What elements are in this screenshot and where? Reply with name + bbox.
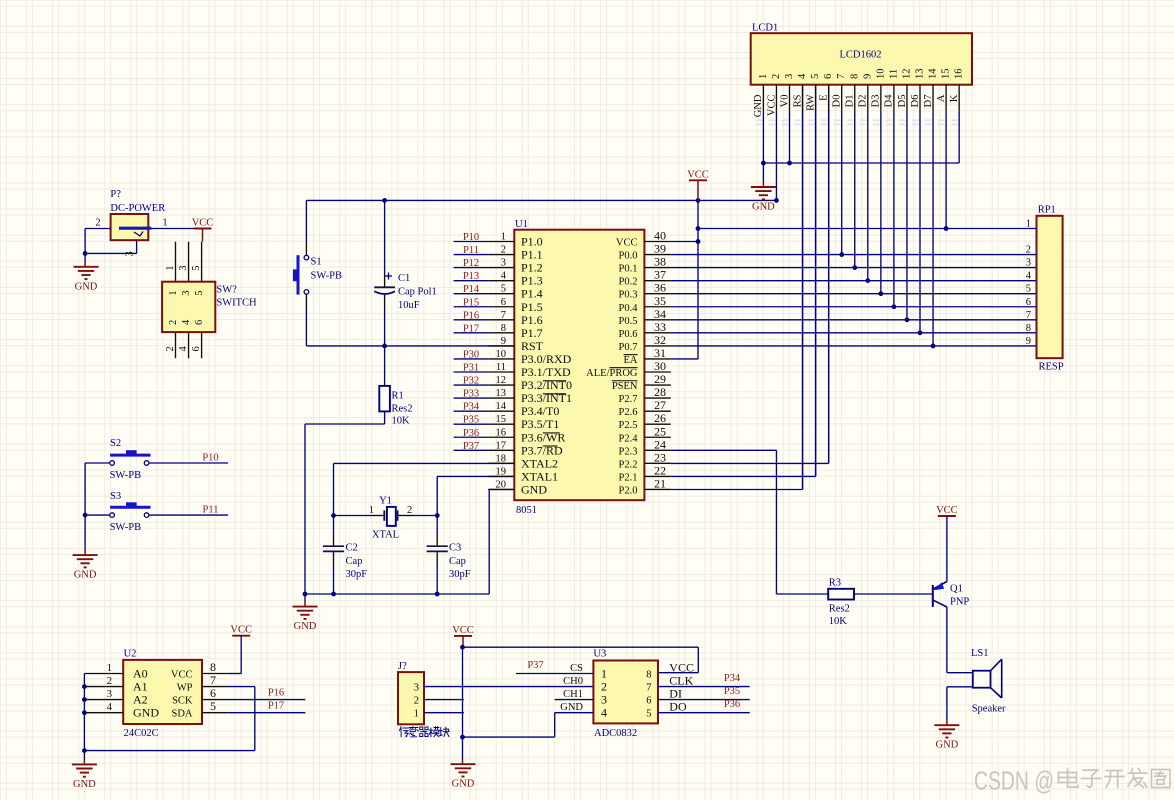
svg-text:PNP: PNP [950, 597, 969, 608]
svg-text:S1: S1 [311, 257, 322, 268]
svg-text:P34: P34 [463, 402, 480, 413]
svg-text:P36: P36 [724, 699, 740, 710]
svg-text:LCD1602: LCD1602 [840, 50, 882, 61]
svg-text:7: 7 [1026, 310, 1031, 321]
svg-text:7: 7 [646, 683, 651, 694]
svg-text:11: 11 [496, 362, 506, 373]
svg-text:D6: D6 [910, 95, 921, 108]
svg-text:5: 5 [810, 74, 821, 79]
svg-text:5: 5 [194, 291, 205, 296]
svg-text:ADC0832: ADC0832 [594, 728, 637, 739]
svg-text:38: 38 [654, 255, 666, 269]
svg-text:P1.2: P1.2 [521, 261, 543, 275]
svg-text:3: 3 [107, 689, 112, 700]
svg-text:VCC: VCC [936, 505, 958, 516]
svg-text:P1.4: P1.4 [521, 287, 543, 301]
svg-text:P3.1/TXD: P3.1/TXD [521, 365, 571, 379]
svg-text:1: 1 [369, 505, 374, 516]
svg-text:2: 2 [501, 245, 506, 256]
svg-text:13: 13 [496, 388, 507, 399]
svg-text:P?: P? [110, 189, 121, 200]
svg-text:3: 3 [501, 258, 506, 269]
svg-text:XTAL2: XTAL2 [521, 456, 558, 470]
svg-text:6: 6 [1026, 297, 1031, 308]
svg-text:LCD1: LCD1 [752, 23, 778, 34]
svg-text:17: 17 [496, 440, 507, 451]
svg-text:RST: RST [521, 339, 544, 353]
svg-text:P1.0: P1.0 [521, 235, 543, 249]
svg-text:GND: GND [521, 482, 547, 496]
svg-text:D5: D5 [897, 95, 908, 108]
svg-text:P2.1: P2.1 [619, 472, 638, 483]
svg-text:1: 1 [162, 218, 167, 229]
svg-text:3: 3 [1026, 258, 1031, 269]
svg-text:1: 1 [168, 291, 179, 296]
svg-text:2: 2 [601, 680, 607, 694]
svg-text:P17: P17 [268, 701, 284, 712]
svg-text:10: 10 [875, 69, 886, 80]
svg-text:22: 22 [654, 463, 666, 477]
svg-text:2: 2 [168, 320, 179, 325]
svg-text:P2.7: P2.7 [619, 394, 638, 405]
svg-text:2: 2 [165, 346, 176, 351]
svg-text:33: 33 [654, 320, 666, 334]
svg-text:P3.3/INT1: P3.3/INT1 [521, 391, 572, 405]
svg-text:P2.5: P2.5 [619, 420, 638, 431]
svg-text:P3.5/T1: P3.5/T1 [521, 417, 559, 431]
svg-text:4: 4 [178, 346, 189, 352]
svg-text:P2.6: P2.6 [619, 407, 638, 418]
svg-text:21: 21 [654, 476, 666, 490]
svg-text:Y1: Y1 [379, 496, 392, 507]
svg-text:VCC: VCC [687, 169, 709, 180]
svg-text:35: 35 [654, 294, 666, 308]
svg-text:DI: DI [669, 687, 682, 701]
svg-text:2: 2 [407, 505, 412, 516]
svg-text:P11: P11 [203, 505, 219, 516]
svg-text:P0.7: P0.7 [619, 342, 638, 353]
svg-text:30: 30 [654, 359, 666, 373]
svg-text:RW: RW [805, 94, 816, 110]
svg-text:P3.6/WR: P3.6/WR [521, 430, 565, 444]
svg-text:19: 19 [496, 466, 507, 477]
svg-text:VCC: VCC [616, 238, 638, 249]
svg-text:Cap: Cap [346, 556, 363, 567]
svg-text:30pF: 30pF [449, 569, 471, 580]
svg-text:D4: D4 [884, 94, 895, 108]
svg-text:6: 6 [210, 686, 216, 700]
svg-text:P3.7/RD: P3.7/RD [521, 443, 563, 457]
svg-text:GND: GND [74, 570, 97, 581]
svg-text:P3.2/INT0: P3.2/INT0 [521, 378, 572, 392]
svg-text:6: 6 [501, 297, 506, 308]
svg-text:P30: P30 [463, 349, 479, 360]
svg-text:SW-PB: SW-PB [110, 470, 142, 481]
svg-text:6: 6 [194, 320, 205, 325]
svg-text:S3: S3 [110, 491, 121, 502]
svg-text:4: 4 [181, 319, 192, 325]
svg-text:9: 9 [501, 336, 506, 347]
svg-text:C3: C3 [449, 543, 461, 554]
svg-text:9: 9 [862, 74, 873, 79]
svg-text:GND: GND [73, 779, 96, 790]
svg-text:U2: U2 [124, 649, 137, 660]
svg-text:5: 5 [501, 284, 506, 295]
svg-text:4: 4 [1026, 271, 1032, 282]
svg-text:VCC: VCC [171, 670, 193, 681]
svg-text:P0.0: P0.0 [619, 251, 638, 262]
svg-text:P0.5: P0.5 [619, 316, 638, 327]
svg-text:3: 3 [601, 693, 607, 707]
svg-text:4: 4 [501, 271, 507, 282]
svg-text:3: 3 [125, 251, 136, 256]
svg-text:P37: P37 [527, 660, 543, 671]
svg-text:1: 1 [501, 232, 506, 243]
svg-text:P10: P10 [202, 453, 218, 464]
svg-text:20: 20 [496, 479, 507, 490]
svg-text:EA: EA [624, 355, 638, 366]
svg-text:Res2: Res2 [829, 604, 850, 615]
svg-text:RESP: RESP [1039, 362, 1064, 373]
svg-text:2: 2 [414, 696, 419, 707]
svg-text:P35: P35 [724, 686, 740, 697]
svg-text:5: 5 [1026, 284, 1031, 295]
svg-text:E: E [818, 95, 829, 101]
svg-text:DO: DO [669, 700, 687, 714]
svg-text:D7: D7 [923, 95, 934, 108]
svg-text:XTAL: XTAL [372, 530, 399, 541]
svg-text:8: 8 [501, 323, 506, 334]
svg-text:A0: A0 [133, 667, 148, 681]
svg-text:VCC: VCC [230, 625, 252, 636]
svg-text:GND: GND [133, 706, 159, 720]
svg-text:1: 1 [107, 663, 112, 674]
svg-text:39: 39 [654, 242, 666, 256]
svg-text:10uF: 10uF [398, 300, 420, 311]
svg-text:40: 40 [654, 229, 666, 243]
svg-text:RS: RS [792, 94, 803, 107]
svg-text:P17: P17 [463, 323, 479, 334]
svg-text:P1.6: P1.6 [521, 313, 543, 327]
svg-text:GND: GND [752, 202, 775, 213]
svg-text:4: 4 [107, 702, 113, 713]
svg-text:V0: V0 [779, 95, 790, 108]
svg-text:J?: J? [398, 661, 407, 672]
svg-text:CLK: CLK [669, 674, 693, 688]
svg-text:P36: P36 [463, 428, 479, 439]
svg-text:14: 14 [928, 68, 939, 79]
svg-text:VCC: VCC [669, 661, 694, 675]
svg-text:P15: P15 [463, 297, 479, 308]
svg-text:CH1: CH1 [563, 689, 583, 700]
svg-text:27: 27 [654, 398, 666, 412]
svg-text:Cap Pol1: Cap Pol1 [398, 287, 437, 298]
svg-text:DC-POWER: DC-POWER [110, 203, 165, 214]
svg-text:P14: P14 [463, 284, 480, 295]
svg-text:GND: GND [753, 94, 764, 117]
svg-text:A1: A1 [133, 680, 148, 694]
svg-text:6: 6 [191, 346, 202, 351]
svg-text:VCC: VCC [452, 625, 474, 636]
svg-text:32: 32 [654, 333, 666, 347]
svg-text:10: 10 [496, 349, 507, 360]
svg-text:P0.2: P0.2 [619, 277, 638, 288]
svg-text:9: 9 [1026, 336, 1031, 347]
svg-text:GND: GND [452, 779, 475, 790]
svg-text:4: 4 [601, 706, 607, 720]
svg-text:GND: GND [560, 702, 583, 713]
svg-text:10K: 10K [829, 616, 848, 627]
svg-text:D1: D1 [845, 95, 856, 108]
svg-text:D0: D0 [832, 95, 843, 108]
svg-text:6: 6 [646, 696, 651, 707]
svg-text:P2.0: P2.0 [619, 485, 638, 496]
svg-text:10K: 10K [392, 416, 411, 427]
svg-text:U1: U1 [515, 219, 528, 230]
svg-text:23: 23 [654, 450, 666, 464]
svg-text:P11: P11 [463, 245, 479, 256]
svg-text:R1: R1 [392, 391, 404, 402]
svg-text:P2.2: P2.2 [619, 459, 638, 470]
svg-text:GND: GND [294, 621, 317, 632]
svg-text:LS1: LS1 [971, 648, 989, 659]
svg-text:D2: D2 [858, 95, 869, 108]
svg-text:U3: U3 [593, 649, 606, 660]
svg-text:16: 16 [496, 427, 507, 438]
svg-text:ALE/PROG: ALE/PROG [586, 368, 638, 379]
svg-text:3: 3 [181, 291, 192, 296]
svg-text:14: 14 [496, 401, 507, 412]
svg-text:5: 5 [646, 709, 651, 720]
svg-text:1: 1 [601, 667, 607, 681]
svg-text:29: 29 [654, 372, 666, 386]
svg-text:R3: R3 [829, 578, 841, 589]
svg-text:SW?: SW? [216, 285, 237, 296]
svg-text:CSDN @: CSDN @ [974, 766, 1054, 796]
svg-text:P35: P35 [463, 415, 479, 426]
svg-text:RP1: RP1 [1038, 205, 1056, 216]
svg-text:8: 8 [1026, 323, 1031, 334]
svg-text:CS: CS [570, 663, 583, 674]
svg-text:Res2: Res2 [392, 404, 413, 415]
svg-text:P13: P13 [463, 271, 479, 282]
svg-text:P1.5: P1.5 [521, 300, 543, 314]
svg-text:6: 6 [823, 74, 834, 79]
svg-text:P34: P34 [724, 673, 741, 684]
svg-text:1: 1 [1026, 219, 1031, 230]
svg-text:1: 1 [414, 709, 419, 720]
svg-text:P1.3: P1.3 [521, 274, 543, 288]
svg-text:SCK: SCK [172, 696, 193, 707]
svg-text:7: 7 [836, 74, 847, 79]
svg-text:30pF: 30pF [346, 569, 368, 580]
svg-text:S2: S2 [110, 438, 121, 449]
svg-text:24: 24 [654, 437, 666, 451]
svg-text:SW-PB: SW-PB [110, 522, 142, 533]
svg-text:P2.3: P2.3 [619, 446, 638, 457]
svg-text:Cap: Cap [449, 556, 466, 567]
svg-text:3: 3 [414, 683, 419, 694]
svg-text:P16: P16 [463, 310, 479, 321]
svg-text:3: 3 [784, 74, 795, 79]
svg-text:SDA: SDA [171, 709, 192, 720]
svg-text:7: 7 [210, 673, 216, 687]
svg-text:8: 8 [849, 74, 860, 79]
svg-text:C1: C1 [398, 273, 410, 284]
svg-text:15: 15 [496, 414, 507, 425]
svg-text:VCC: VCC [766, 95, 777, 117]
svg-text:P32: P32 [463, 376, 479, 387]
svg-text:7: 7 [501, 310, 506, 321]
svg-text:1: 1 [758, 74, 769, 79]
svg-text:13: 13 [915, 69, 926, 80]
svg-text:P0.1: P0.1 [619, 264, 638, 275]
svg-text:2: 2 [107, 676, 112, 687]
svg-text:VCC: VCC [192, 218, 214, 229]
svg-text:12: 12 [901, 69, 912, 80]
svg-text:P2.4: P2.4 [619, 433, 639, 444]
svg-text:P1.1: P1.1 [521, 248, 543, 262]
svg-text:P10: P10 [463, 232, 479, 243]
svg-text:5: 5 [210, 699, 216, 713]
svg-text:2: 2 [95, 218, 100, 229]
svg-text:Q1: Q1 [950, 584, 963, 595]
svg-text:P0.4: P0.4 [619, 303, 639, 314]
svg-text:XTAL1: XTAL1 [521, 469, 558, 483]
svg-text:SWITCH: SWITCH [216, 298, 257, 309]
svg-text:34: 34 [654, 307, 666, 321]
svg-text:A2: A2 [133, 693, 148, 707]
svg-text:16: 16 [954, 69, 965, 80]
svg-text:18: 18 [496, 453, 507, 464]
svg-text:4: 4 [797, 73, 808, 79]
svg-text:P31: P31 [463, 363, 479, 374]
svg-text:WP: WP [177, 683, 193, 694]
svg-text:24C02C: 24C02C [124, 728, 159, 739]
svg-text:GND: GND [75, 281, 98, 292]
svg-text:CH0: CH0 [563, 676, 583, 687]
svg-text:31: 31 [654, 346, 666, 360]
svg-text:37: 37 [654, 268, 666, 282]
svg-text:D3: D3 [871, 95, 882, 108]
svg-text:GND: GND [936, 740, 959, 751]
svg-text:Speaker: Speaker [972, 704, 1006, 715]
svg-text:P0.6: P0.6 [619, 329, 638, 340]
svg-text:2: 2 [771, 74, 782, 79]
svg-text:11: 11 [888, 69, 899, 79]
svg-text:2: 2 [1026, 245, 1031, 256]
svg-text:P33: P33 [463, 389, 479, 400]
svg-text:P3.4/T0: P3.4/T0 [521, 404, 559, 418]
svg-text:3: 3 [178, 266, 189, 271]
svg-text:12: 12 [496, 375, 507, 386]
svg-text:8: 8 [646, 670, 651, 681]
svg-text:8: 8 [210, 660, 216, 674]
svg-text:P12: P12 [463, 258, 479, 269]
svg-text:SW-PB: SW-PB [311, 271, 343, 282]
svg-text:P3.0/RXD: P3.0/RXD [521, 352, 572, 366]
svg-text:P0.3: P0.3 [619, 290, 638, 301]
svg-text:K: K [949, 94, 960, 102]
svg-text:5: 5 [191, 266, 202, 271]
svg-text:26: 26 [654, 411, 666, 425]
svg-text:15: 15 [941, 69, 952, 80]
svg-text:8051: 8051 [516, 505, 537, 516]
svg-text:25: 25 [654, 424, 666, 438]
svg-text:P16: P16 [268, 688, 284, 699]
svg-text:28: 28 [654, 385, 666, 399]
svg-text:36: 36 [654, 281, 666, 295]
svg-text:1: 1 [165, 266, 176, 271]
svg-text:P1.7: P1.7 [521, 326, 543, 340]
svg-text:C2: C2 [346, 543, 358, 554]
svg-text:P37: P37 [463, 441, 479, 452]
svg-text:PSEN: PSEN [612, 381, 638, 392]
svg-text:A: A [936, 94, 947, 102]
